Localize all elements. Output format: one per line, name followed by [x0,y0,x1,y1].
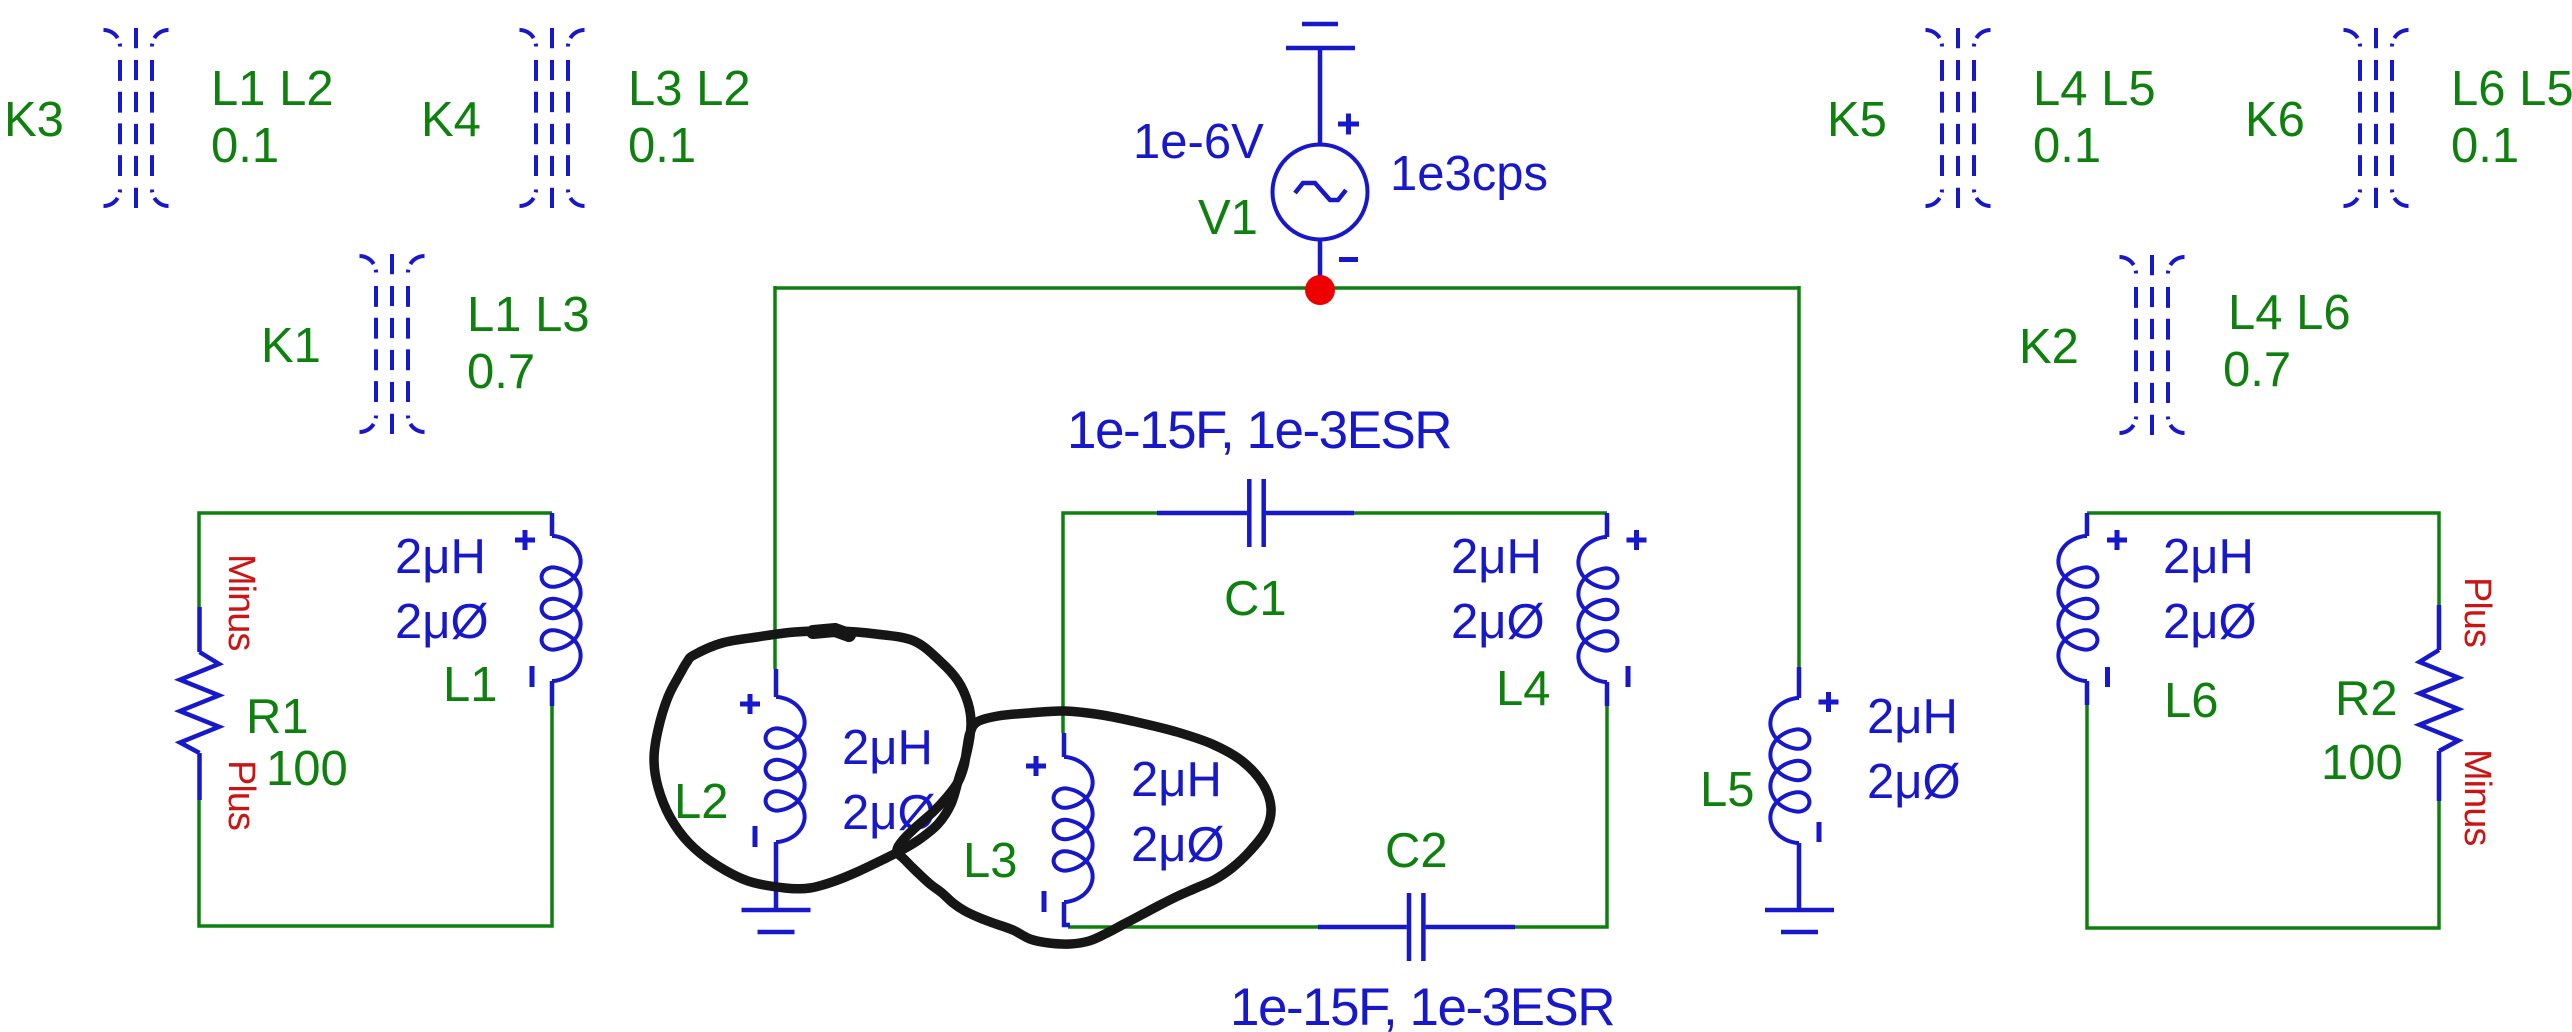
voltage source V1 [1273,114,1368,292]
svg-text:0.7: 0.7 [2223,343,2291,397]
svg-text:0.1: 0.1 [628,119,696,173]
coupling symbol K3 [104,28,169,208]
svg-text:K3: K3 [4,93,64,147]
svg-text:L5: L5 [1700,763,1755,817]
capacitor C2 [1318,893,1515,961]
svg-text:100: 100 [266,742,348,796]
svg-text:K4: K4 [421,93,481,147]
inductor L2 [740,669,805,910]
coupling symbol K5 [1926,28,1991,208]
svg-text:L1 L2: L1 L2 [211,62,334,116]
svg-text:L4 L6: L4 L6 [2228,286,2351,340]
coupling symbol K6 [2343,28,2408,208]
wire net: V1 output horizontal [775,286,1799,290]
coupling symbol K2 [2120,255,2185,435]
inductor L5 [1770,667,1838,910]
resistor R2 [2420,605,2459,801]
svg-text:2μØ: 2μØ [842,786,936,840]
svg-text:K6: K6 [2245,93,2305,147]
svg-text:R2: R2 [2335,672,2398,726]
ground [742,910,811,932]
annotation circle around L2 [654,631,971,889]
wire left loop top [199,513,552,607]
svg-text:Minus: Minus [220,554,262,650]
svg-text:L6 L5: L6 L5 [2451,62,2572,116]
svg-text:C1: C1 [1224,572,1287,626]
resistor R1 [180,607,219,800]
inductor L4 [1578,513,1646,706]
wire C1 loop top-left [1063,513,1157,733]
svg-text:2μH: 2μH [1451,530,1542,584]
wire L3 bottom stub [1064,902,1070,925]
svg-text:2μH: 2μH [842,721,933,775]
svg-text:L3: L3 [963,834,1018,888]
ground [1765,910,1834,932]
svg-text:2μØ: 2μØ [395,595,489,649]
inductor L1 [515,513,581,706]
wire C1 to L4 [1354,511,1607,515]
wire left loop bottom [199,706,552,926]
svg-text:2μH: 2μH [1867,690,1958,744]
junction node [1305,275,1335,305]
wire right loop [2087,705,2439,928]
svg-text:L6: L6 [2164,674,2219,728]
svg-text:1e-15F, 1e-3ESR: 1e-15F, 1e-3ESR [1230,978,1614,1032]
svg-text:2μØ: 2μØ [1451,595,1545,649]
wire C2 to L3 [1068,925,1318,929]
svg-text:0.1: 0.1 [2451,119,2519,173]
svg-text:K2: K2 [2019,320,2079,374]
svg-text:100: 100 [2321,736,2403,790]
svg-text:2μØ: 2μØ [1131,818,1225,872]
capacitor C1 [1157,479,1354,547]
svg-text:L2: L2 [674,775,729,829]
svg-text:1e-6V: 1e-6V [1133,115,1264,169]
svg-text:L1 L3: L1 L3 [467,288,590,342]
svg-text:Minus: Minus [2456,749,2498,845]
svg-text:0.7: 0.7 [467,345,535,399]
svg-text:2μH: 2μH [1131,753,1222,807]
coupling symbol K1 [360,254,425,434]
svg-text:K5: K5 [1827,93,1887,147]
wire [773,286,777,669]
inductor L3 [1026,733,1093,912]
svg-text:1e-15F, 1e-3ESR: 1e-15F, 1e-3ESR [1067,401,1451,460]
svg-text:R1: R1 [246,690,309,744]
svg-text:Plus: Plus [220,760,262,830]
coupling symbol K4 [520,28,585,208]
wire [1797,286,1801,667]
wire right loop top [2087,513,2439,605]
inductor L6 [2058,513,2127,705]
annotation circle around L3 [897,711,1271,944]
svg-text:K1: K1 [261,319,321,373]
svg-text:2μH: 2μH [2163,530,2254,584]
wire L4 down to C2 [1515,706,1607,927]
svg-text:C2: C2 [1385,824,1448,878]
power rail symbol above V1 [1286,24,1355,144]
svg-text:L1: L1 [443,658,498,712]
svg-text:Plus: Plus [2456,577,2498,647]
svg-text:1e3cps: 1e3cps [1390,147,1548,201]
svg-text:L4 L5: L4 L5 [2033,62,2156,116]
svg-text:2μØ: 2μØ [2163,595,2257,649]
svg-text:0.1: 0.1 [211,119,279,173]
svg-text:0.1: 0.1 [2033,119,2101,173]
svg-text:V1: V1 [1198,191,1258,245]
svg-text:L4: L4 [1496,662,1551,716]
svg-text:L3 L2: L3 L2 [628,62,751,116]
svg-text:2μØ: 2μØ [1867,755,1961,809]
svg-text:2μH: 2μH [395,530,486,584]
